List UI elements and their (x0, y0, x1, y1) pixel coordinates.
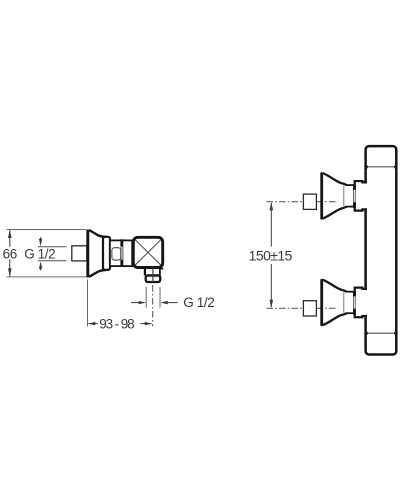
connection boss bottom outline (355, 202, 367, 211)
svg-text:G 1/2: G 1/2 (183, 295, 214, 310)
escutcheon flange face (320, 174, 323, 219)
outlet nut (146, 275, 161, 282)
inner hex nut face (112, 248, 121, 260)
svg-text:66: 66 (3, 246, 17, 261)
bottom cap line (367, 332, 395, 334)
top cap line (367, 166, 395, 168)
knob cross X line 1 (135, 240, 160, 265)
union collar thin line left (120, 247, 122, 260)
outlet G1/2 dim arrow left (points right) (131, 301, 146, 304)
outlet right shoulder (160, 269, 163, 276)
escutcheon flange face (86, 231, 89, 276)
bottom cap tick right (394, 332, 397, 335)
svg-text:150±15: 150±15 (249, 248, 293, 264)
union nut bottom bar (353, 203, 356, 208)
arrowhead 150 up (270, 202, 274, 210)
connection boss top outline (355, 181, 367, 190)
outlet G1/2 extension line left (145, 287, 147, 308)
valve bar body column (366, 146, 397, 354)
centerline (dash-dot) (267, 201, 339, 203)
outlet centerline dash-dot (152, 285, 154, 326)
top connection group (267, 173, 368, 218)
outlet shading line (148, 276, 159, 278)
escutcheon rim band (103, 237, 110, 270)
arrow G1/2 top (points down) (39, 237, 42, 246)
arrowhead 66 up (8, 230, 12, 238)
arrowhead 93-98 right (145, 322, 152, 325)
extension line bottom (66 dim) (7, 276, 87, 278)
union collar top bar (120, 239, 123, 246)
outlet left shoulder (144, 268, 146, 276)
escutcheon trumpet top curve (89, 230, 106, 237)
rim boundary line (343, 186, 345, 207)
dimension line 150 lower segment (270, 264, 272, 307)
outlet centerline solid part (152, 266, 154, 282)
dimension line 150 upper segment (270, 203, 272, 247)
union nut top bar (353, 185, 356, 190)
bottom connection group (reuse) (267, 280, 368, 325)
neck top line (346, 184, 354, 186)
dimension line 93-98 (89, 323, 152, 325)
svg-text:G 1/2: G 1/2 (24, 246, 55, 261)
outlet G1/2 extension line right (159, 287, 161, 308)
label 66 background (2, 247, 19, 260)
trumpet top curve (323, 173, 347, 185)
outlet G1/2 dim arrow right (points left) (160, 301, 177, 304)
trumpet bottom curve (323, 207, 347, 219)
valve inlet pipe (110, 240, 132, 266)
arrow G1/2 bottom (points up) (39, 261, 42, 270)
bottom cap tick left (365, 332, 368, 335)
top cap tick right (394, 166, 397, 169)
svg-text:93 - 98: 93 - 98 (99, 317, 134, 332)
arrowhead 150 down (270, 300, 274, 308)
extension line from flange face down (87, 280, 89, 327)
extension line G1/2 bottom (38, 260, 67, 262)
handle knob (rounded square) (133, 237, 162, 267)
wall thread stub (303, 194, 316, 209)
top cap tick left (365, 166, 368, 169)
knob cross X line 2 (135, 240, 160, 265)
wall thread stub (side view) (72, 246, 87, 261)
union collar bottom bar (120, 260, 123, 267)
dimension line 66 (9, 230, 11, 276)
label 93-98 background (98, 317, 141, 330)
arrowhead 93-98 left (88, 322, 95, 325)
connection boss on column (white infill) (356, 182, 368, 211)
arrowhead 66 down (8, 268, 12, 276)
escutcheon trumpet bottom curve (89, 270, 106, 277)
union collar thin line right (122, 247, 124, 260)
neck bottom line (346, 206, 354, 208)
union nut thin line left (353, 190, 355, 203)
extension line G1/2 top (38, 246, 67, 248)
extension line top (66 dim) (7, 229, 87, 231)
union nut thin line right (354, 190, 356, 203)
